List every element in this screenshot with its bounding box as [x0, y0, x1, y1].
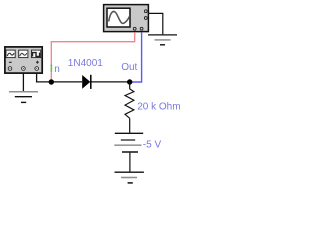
svg-text:Out: Out	[121, 62, 137, 73]
ground (below battery)	[115, 172, 144, 183]
function generator XFG1	[5, 47, 42, 73]
wire battery to ground	[129, 153, 131, 172]
wire channel A (red) from scope to node In	[51, 32, 134, 79]
diode D1	[82, 75, 91, 89]
svg-text:n: n	[54, 64, 60, 75]
svg-text:20 k Ohm: 20 k Ohm	[137, 102, 180, 113]
junction node Out	[127, 79, 132, 84]
wire diode cathode to node Out	[92, 81, 132, 83]
junction node In	[49, 79, 54, 84]
wire node In to diode anode	[51, 81, 82, 83]
svg-text:-5 V: -5 V	[143, 139, 162, 150]
node label In (I over red wire, n in blue)	[51, 65, 53, 67]
svg-text:1N4001: 1N4001	[68, 58, 103, 69]
oscilloscope XSC1	[104, 5, 149, 32]
resistor R1	[125, 89, 134, 118]
wire resistor to battery	[129, 118, 131, 133]
wire node Out to resistor	[129, 82, 131, 89]
wire FG plus terminal to node In	[37, 73, 51, 82]
ground (right of oscilloscope)	[148, 35, 177, 45]
ground (below function generator)	[9, 92, 38, 103]
battery V1	[114, 133, 143, 152]
wire channel B (blue) from scope to node Out	[132, 32, 142, 82]
wire FG common terminal to ground	[22, 73, 24, 91]
wire scope ground terminal to ground	[149, 13, 163, 34]
